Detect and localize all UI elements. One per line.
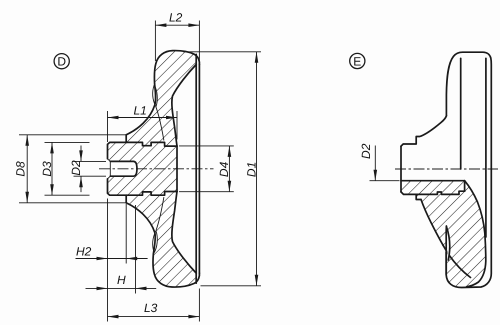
view E hub bottom edge <box>401 192 421 200</box>
rim section right edge <box>195 54 197 283</box>
svg-text:D1: D1 <box>245 162 259 177</box>
wheel outline top half <box>108 51 200 159</box>
centerline view D <box>99 168 214 170</box>
view E bore line <box>401 180 465 182</box>
view E rim outer silhouette <box>446 52 491 287</box>
view E castellation <box>416 191 464 194</box>
wheel outline bottom half <box>108 179 200 287</box>
dim D4 <box>179 145 234 147</box>
dim D2 (view D) <box>74 160 107 162</box>
handwheel section view D: hatched section (top half) <box>108 51 200 169</box>
svg-text:L2: L2 <box>169 11 183 25</box>
svg-text:H2: H2 <box>76 245 92 259</box>
dim H2 <box>125 204 127 264</box>
rim section inner edge (web back S-curve) bottom <box>172 192 196 274</box>
svg-text:H: H <box>117 273 126 287</box>
rim section inner edge (web back S-curve) top <box>172 65 196 147</box>
rim outer silhouette line <box>198 65 200 274</box>
view E hub face line <box>400 146 402 192</box>
centerline view E <box>395 168 498 170</box>
view E hub rear face <box>464 181 466 192</box>
svg-text:D: D <box>57 55 66 69</box>
dim L2 <box>154 21 156 62</box>
svg-text:D2: D2 <box>359 143 373 159</box>
hub rib edges (castellation) top <box>126 142 177 146</box>
web-rim fillet lens top <box>153 85 158 107</box>
view E outline top: hub, web, rim <box>401 116 446 146</box>
view E rim left lower edge / crescent lens <box>446 227 449 261</box>
bore entry chamfer <box>108 159 111 162</box>
dish floor silhouette bottom <box>156 197 164 231</box>
bore outline <box>110 161 137 176</box>
view E hatched hub band <box>401 181 486 287</box>
dim L3 <box>107 199 109 322</box>
svg-text:E: E <box>353 54 361 68</box>
dim L1 <box>107 111 109 142</box>
svg-text:L3: L3 <box>144 301 158 315</box>
view E web outer curve (bottom) <box>421 200 471 278</box>
hub rear face <box>176 146 178 191</box>
svg-text:D3: D3 <box>40 161 54 177</box>
hub rib edges (castellation) bottom <box>126 192 177 196</box>
view E web back curve <box>465 181 486 287</box>
label circle D <box>54 54 69 69</box>
dim D8 <box>19 134 127 136</box>
handwheel section view D: hatched section (bottom half) <box>108 169 200 287</box>
svg-text:L1: L1 <box>134 104 147 118</box>
view E rim inner silhouette lines <box>460 58 462 169</box>
svg-text:D4: D4 <box>217 161 231 177</box>
svg-text:D2: D2 <box>69 160 83 176</box>
dim H <box>135 205 137 294</box>
dish floor silhouette top <box>156 107 164 141</box>
web-rim fillet lens bottom <box>153 231 158 253</box>
dim D2 (view E) <box>370 180 400 182</box>
dim D3 <box>45 141 90 143</box>
dim D1 <box>183 51 261 53</box>
label circle E <box>350 53 365 68</box>
svg-text:D8: D8 <box>14 161 28 177</box>
bore mouth edge <box>109 161 111 176</box>
